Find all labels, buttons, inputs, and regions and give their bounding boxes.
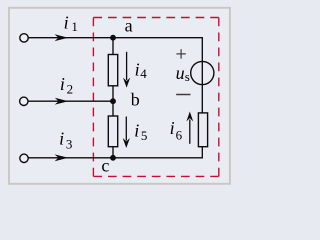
svg-text:2: 2 [67,82,74,97]
label i1 [64,13,78,34]
svg-text:b: b [131,89,140,109]
polarity - [176,94,190,96]
voltage source us [191,61,214,84]
terminal T3 [20,154,28,162]
wire: terminal 1 to node a [28,37,113,39]
svg-text:u: u [176,63,185,83]
resistor R5 (branch b-c) [108,116,117,147]
svg-text:c: c [101,156,109,176]
label i4 [135,60,148,81]
svg-text:i: i [60,74,65,94]
wire: bottom rail node c to right branch [113,147,202,158]
svg-text:i: i [134,121,139,141]
dashed boundary box (cut set) [93,18,218,177]
svg-text:6: 6 [176,127,183,142]
node c [110,155,116,161]
label i3 [59,129,72,152]
label us [176,63,190,84]
svg-text:4: 4 [140,66,147,81]
resistor R4 (branch a-b) [108,55,117,86]
resistor R6 (right branch) [198,113,207,147]
wire: vertical bus node a to node c [112,38,114,158]
terminal T1 [20,34,28,42]
terminal T2 [20,97,28,105]
svg-text:a: a [125,16,133,36]
svg-text:i: i [64,13,69,33]
node b [110,98,116,104]
wire: terminal 3 to node c [28,157,113,159]
label i2 [60,74,73,97]
wire: terminal 2 to node b [28,100,113,102]
svg-text:1: 1 [71,19,78,34]
svg-text:i: i [170,118,175,138]
polarity + [176,49,185,59]
current arrow i3 [55,154,69,161]
current arrow i6 [186,112,193,144]
current arrow i2 [55,98,69,105]
svg-text:5: 5 [141,128,148,143]
svg-text:i: i [59,129,64,149]
current arrow i4 [123,52,130,88]
current arrow i1 [55,34,69,41]
wire: node a to top-right corner, down to voltage source and resistor [113,38,202,113]
svg-text:i: i [135,60,140,80]
current arrow i5 [123,117,130,149]
label i6 [170,118,183,142]
node a [110,35,116,41]
svg-text:s: s [185,69,190,84]
svg-text:3: 3 [66,136,73,151]
label i5 [134,121,147,144]
